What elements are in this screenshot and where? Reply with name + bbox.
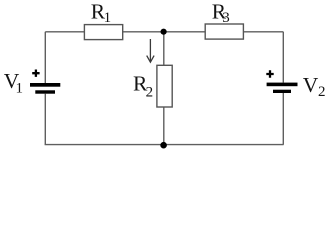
svg-text:2: 2 bbox=[146, 84, 154, 100]
svg-text:1: 1 bbox=[104, 10, 112, 26]
svg-text:2: 2 bbox=[318, 84, 326, 100]
svg-text:1: 1 bbox=[16, 81, 24, 97]
svg-text:V: V bbox=[303, 73, 319, 97]
svg-text:3: 3 bbox=[222, 10, 230, 26]
